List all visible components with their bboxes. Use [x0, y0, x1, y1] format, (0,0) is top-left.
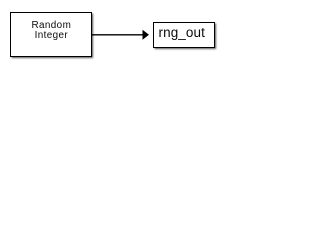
block: outport rng_out	[153, 22, 215, 48]
label: rng_out	[151, 24, 213, 42]
block: Random Integer generator	[10, 12, 92, 57]
wire: signal from Random Integer to rng_out	[91, 28, 151, 42]
arrowhead	[143, 30, 149, 39]
label: Random Integer	[10, 21, 92, 41]
